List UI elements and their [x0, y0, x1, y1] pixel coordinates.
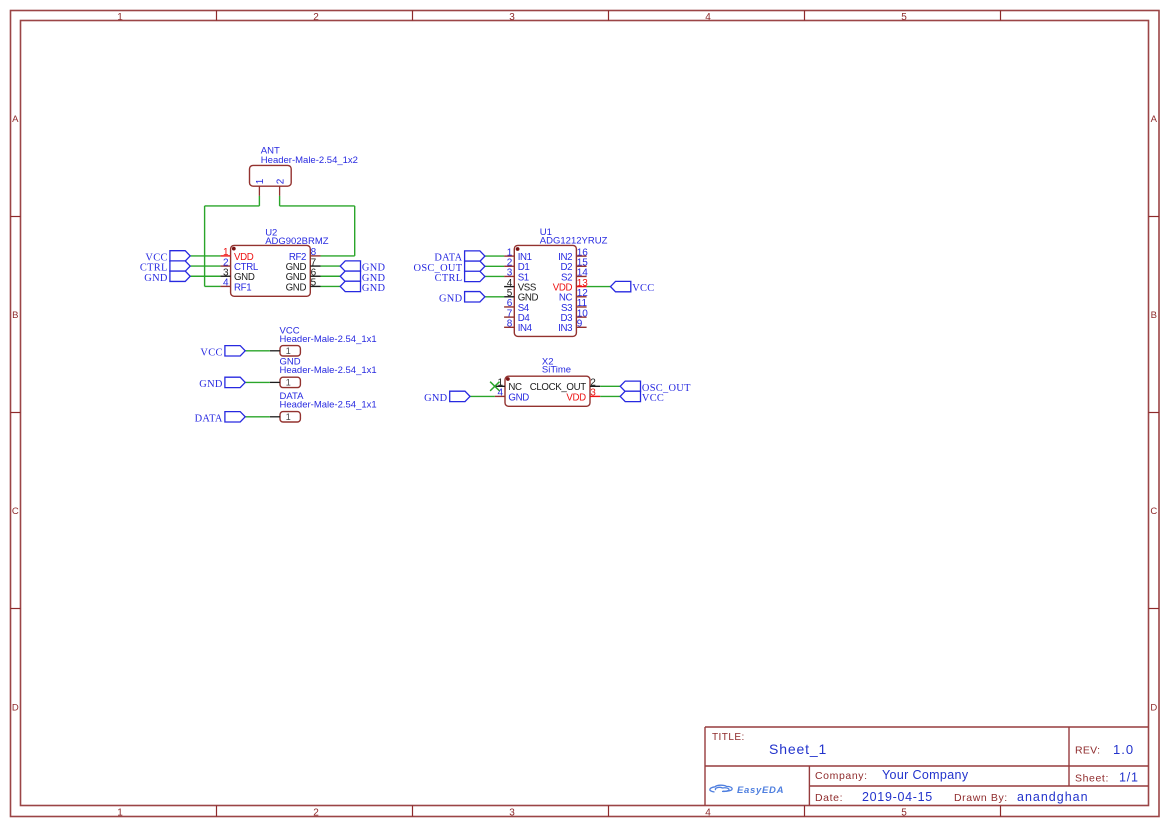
svg-text:1: 1 — [117, 12, 123, 23]
svg-text:C: C — [12, 506, 19, 517]
svg-text:TITLE:: TITLE: — [712, 732, 745, 743]
svg-text:1/1: 1/1 — [1119, 771, 1139, 785]
svg-text:1: 1 — [286, 378, 291, 388]
svg-text:GND: GND — [286, 282, 307, 293]
svg-text:GND: GND — [199, 379, 223, 390]
svg-text:CTRL: CTRL — [435, 273, 463, 284]
svg-text:anandghan: anandghan — [1017, 790, 1089, 804]
svg-text:Header-Male-2.54_1x1: Header-Male-2.54_1x1 — [280, 334, 377, 345]
svg-text:1: 1 — [286, 346, 291, 356]
svg-text:Your Company: Your Company — [882, 768, 969, 782]
svg-text:EasyEDA: EasyEDA — [737, 785, 784, 796]
svg-text:GND: GND — [144, 273, 168, 284]
svg-text:GND: GND — [439, 293, 463, 304]
svg-text:GND: GND — [362, 283, 386, 294]
svg-text:Header-Male-2.54_1x1: Header-Male-2.54_1x1 — [280, 365, 377, 376]
svg-text:Company:: Company: — [815, 770, 868, 782]
svg-text:REV:: REV: — [1075, 745, 1100, 757]
svg-text:IN3: IN3 — [558, 323, 572, 334]
svg-text:9: 9 — [577, 318, 583, 329]
svg-text:VCC: VCC — [632, 283, 654, 294]
svg-text:VCC: VCC — [200, 347, 222, 358]
svg-text:Drawn By:: Drawn By: — [954, 792, 1008, 804]
svg-text:2: 2 — [313, 12, 319, 23]
svg-text:Sheet:: Sheet: — [1075, 773, 1109, 785]
svg-text:2019-04-15: 2019-04-15 — [862, 790, 933, 804]
svg-text:3: 3 — [509, 12, 515, 23]
svg-text:3: 3 — [509, 807, 515, 818]
svg-text:A: A — [12, 114, 19, 125]
svg-text:1: 1 — [255, 178, 266, 184]
svg-text:Header-Male-2.54_1x2: Header-Male-2.54_1x2 — [261, 155, 358, 166]
svg-text:4: 4 — [705, 807, 711, 818]
svg-text:4: 4 — [223, 278, 229, 289]
svg-text:2: 2 — [313, 807, 319, 818]
svg-text:1: 1 — [117, 807, 123, 818]
svg-text:SiTime: SiTime — [542, 365, 571, 376]
svg-text:C: C — [1150, 506, 1157, 517]
svg-text:GND: GND — [424, 393, 448, 404]
svg-text:B: B — [1151, 310, 1157, 321]
svg-text:D: D — [1150, 703, 1157, 714]
svg-text:2: 2 — [275, 178, 286, 184]
svg-text:4: 4 — [705, 12, 711, 23]
svg-text:GND: GND — [508, 392, 529, 403]
svg-text:VCC: VCC — [642, 393, 664, 404]
svg-text:8: 8 — [507, 318, 513, 329]
svg-text:5: 5 — [311, 278, 317, 289]
svg-text:5: 5 — [901, 12, 907, 23]
svg-text:D: D — [12, 703, 19, 714]
svg-text:Sheet_1: Sheet_1 — [769, 741, 827, 757]
svg-text:5: 5 — [901, 807, 907, 818]
svg-text:1.0: 1.0 — [1113, 742, 1134, 757]
svg-text:Header-Male-2.54_1x1: Header-Male-2.54_1x1 — [280, 400, 377, 411]
svg-text:B: B — [12, 310, 18, 321]
svg-text:DATA: DATA — [195, 413, 223, 424]
svg-text:RF1: RF1 — [234, 282, 251, 293]
svg-text:IN4: IN4 — [518, 323, 533, 334]
svg-text:1: 1 — [286, 412, 291, 422]
svg-text:A: A — [1151, 114, 1158, 125]
svg-text:VDD: VDD — [566, 392, 586, 403]
svg-text:Date:: Date: — [815, 792, 843, 804]
svg-text:3: 3 — [590, 388, 596, 399]
